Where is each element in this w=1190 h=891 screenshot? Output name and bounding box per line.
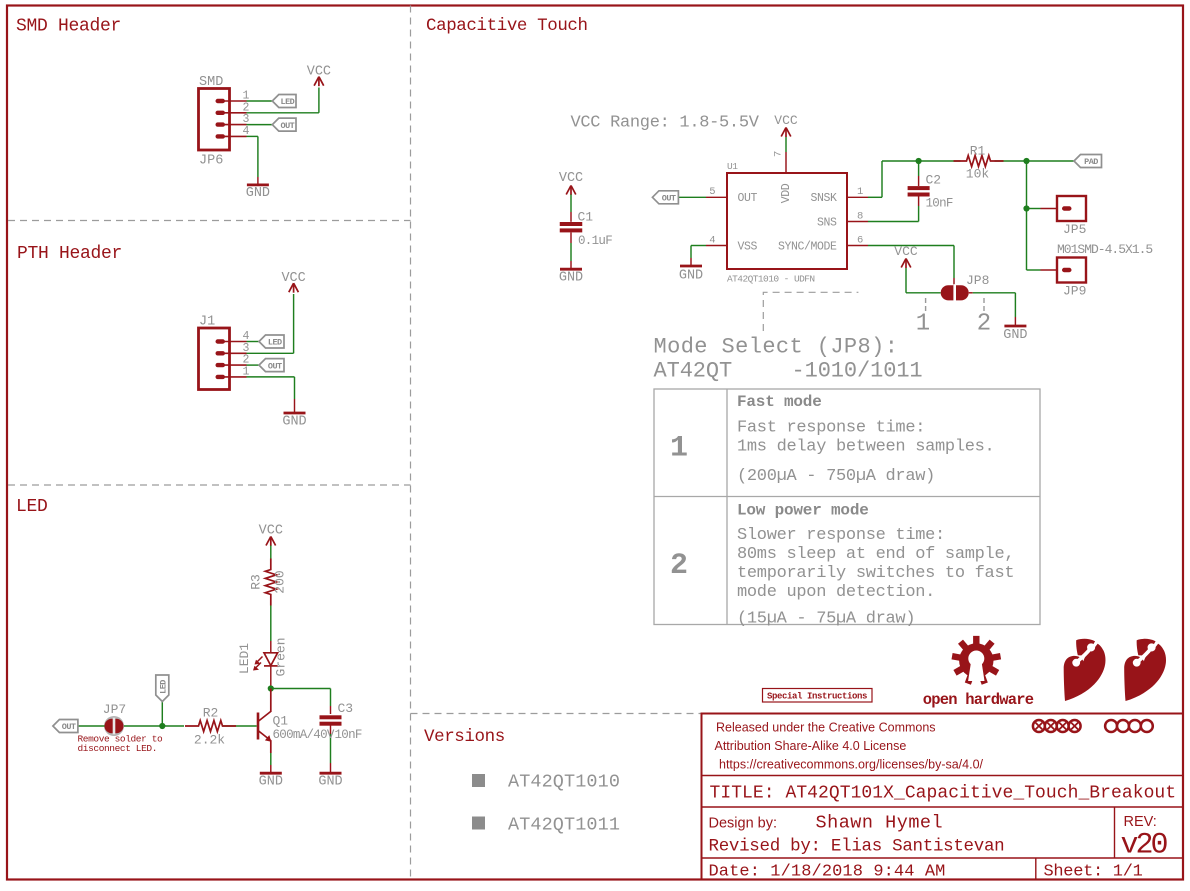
wire VCC to C1 — [570, 195, 572, 222]
connector JP6 — [199, 75, 250, 169]
flag OUT (LED section) — [53, 720, 78, 733]
svg-text:10k: 10k — [966, 167, 990, 182]
svg-text:0.1uF: 0.1uF — [578, 234, 612, 248]
svg-text:VCC: VCC — [894, 244, 918, 259]
svg-text:Fast response time:: Fast response time: — [737, 419, 925, 438]
svg-text:open hardware: open hardware — [923, 691, 1034, 709]
svg-text:1: 1 — [670, 432, 688, 466]
node LED flag junction — [159, 723, 165, 729]
pin 6 (SYNC/MODE) — [847, 234, 868, 246]
diode LED1 — [253, 653, 278, 671]
wire junction to JP7 — [123, 725, 162, 727]
annotation dashed leader — [763, 292, 858, 331]
power VCC (JP6) — [307, 65, 331, 87]
svg-text:1ms delay between samples.: 1ms delay between samples. — [737, 438, 994, 457]
pin 5 (OUT) — [706, 186, 727, 198]
svg-text:VCC Range: 1.8-5.5V: VCC Range: 1.8-5.5V — [571, 114, 760, 133]
wire C3 to GND — [330, 725, 332, 772]
svg-text:JP9: JP9 — [1063, 284, 1086, 299]
wire pin4 to GND — [247, 136, 258, 184]
svg-text:https://creativecommons.org/li: https://creativecommons.org/licenses/by-… — [719, 758, 984, 772]
svg-text:AT42QT1011: AT42QT1011 — [508, 815, 620, 836]
svg-text:8: 8 — [857, 210, 863, 222]
section divider PTH/LED dashed — [8, 484, 411, 486]
wire SNS to C2 — [868, 196, 919, 222]
svg-text:C3: C3 — [338, 701, 354, 716]
wire SNSK net — [868, 161, 1074, 197]
svg-text:C2: C2 — [926, 173, 942, 188]
svg-text:VSS: VSS — [738, 241, 758, 254]
svg-text:TITLE: AT42QT101X_Capacitive_T: TITLE: AT42QT101X_Capacitive_Touch_Break… — [710, 784, 1177, 804]
wire base to R2 — [223, 725, 257, 727]
icons CC crossed circles — [1033, 720, 1081, 732]
svg-text:OUT: OUT — [62, 722, 76, 732]
transistor Q1 — [257, 689, 272, 754]
svg-text:-1010/1011: -1010/1011 — [792, 359, 923, 384]
svg-text:Mode Select (JP8):: Mode Select (JP8): — [654, 335, 899, 360]
pin 7 (VDD) — [773, 151, 787, 173]
flag LED (J1 pin4) — [259, 335, 284, 348]
svg-text:VDD: VDD — [780, 183, 793, 203]
node LED/C3/Q1 junction — [268, 685, 274, 691]
svg-text:2: 2 — [977, 311, 991, 338]
icons CC open circles — [1105, 720, 1153, 732]
wire pin4 to GND — [691, 246, 706, 266]
wire VCC to JP8 pad1 — [906, 268, 941, 293]
wire pin3 to OUT flag — [247, 124, 273, 126]
jumper JP7 — [104, 716, 124, 736]
pad JP9 — [1057, 258, 1086, 283]
svg-text:Q1: Q1 — [273, 714, 289, 729]
svg-text:SNS: SNS — [817, 217, 837, 230]
ground GND (JP6) — [246, 185, 270, 201]
svg-text:Date: 1/18/2018 9:44 AM: Date: 1/18/2018 9:44 AM — [709, 863, 946, 882]
svg-text:AT42QT1010 - UDFN: AT42QT1010 - UDFN — [727, 274, 815, 285]
section divider SMD/PTH dashed — [8, 220, 411, 222]
wire junction to C2 — [918, 161, 920, 186]
svg-text:LED1: LED1 — [237, 643, 252, 674]
svg-text:200: 200 — [273, 570, 288, 593]
svg-text:80ms sleep at end of sample,: 80ms sleep at end of sample, — [737, 545, 1014, 564]
svg-text:Revised by: Elias Santistevan: Revised by: Elias Santistevan — [709, 837, 1005, 857]
svg-text:Capacitive Touch: Capacitive Touch — [426, 16, 588, 36]
pad marker 1 dashed — [925, 298, 927, 313]
svg-text:AT42QT: AT42QT — [654, 359, 733, 384]
ground GND (JP8) — [1003, 326, 1027, 343]
ic U1 body — [727, 173, 847, 269]
svg-text:VCC: VCC — [559, 171, 583, 186]
resistor R2 — [185, 721, 236, 732]
svg-text:JP7: JP7 — [103, 702, 126, 717]
svg-text:Green: Green — [274, 637, 289, 676]
svg-text:GND: GND — [246, 186, 270, 201]
mode table frame — [654, 389, 1040, 625]
capacitor C2 — [908, 186, 930, 196]
svg-text:10nF: 10nF — [926, 197, 953, 211]
svg-text:Low power mode: Low power mode — [737, 502, 869, 520]
power VCC (J1) — [281, 271, 305, 293]
power VCC (JP8) — [894, 244, 918, 268]
pad JP5 — [1057, 196, 1086, 221]
flag OUT (U1) — [652, 191, 678, 204]
svg-text:2.2k: 2.2k — [194, 733, 225, 748]
svg-text:(200µA - 750µA draw): (200µA - 750µA draw) — [737, 467, 935, 486]
svg-text:GND: GND — [282, 415, 306, 430]
svg-text:U1: U1 — [727, 161, 738, 172]
wire JP7 to OUT flag — [78, 725, 105, 727]
svg-text:PTH Header: PTH Header — [17, 244, 122, 264]
svg-text:5: 5 — [709, 186, 715, 198]
wire pin4 to LED flag — [247, 341, 260, 343]
resistor R1 — [954, 156, 1004, 167]
node SNSK/C2 junction — [916, 158, 922, 164]
svg-text:GND: GND — [318, 775, 342, 790]
svg-text:6: 6 — [857, 234, 863, 246]
svg-text:GND: GND — [559, 271, 583, 286]
svg-text:PAD: PAD — [1084, 157, 1098, 167]
pad marker 2 dashed — [983, 298, 985, 313]
svg-text:LED: LED — [16, 497, 48, 517]
wire JP8 pad2 to GND — [969, 293, 1016, 325]
svg-text:disconnect LED.: disconnect LED. — [78, 743, 158, 754]
wire VCC to pin7 — [785, 137, 787, 152]
flag PAD — [1074, 155, 1102, 168]
svg-text:(15µA - 75µA draw): (15µA - 75µA draw) — [737, 610, 915, 629]
svg-text:Fast mode: Fast mode — [737, 393, 822, 411]
svg-text:OUT: OUT — [662, 194, 676, 204]
svg-text:LED: LED — [280, 97, 294, 107]
svg-text:JP6: JP6 — [199, 154, 223, 169]
note remove solder — [78, 734, 164, 755]
svg-text:Sheet: 1/1: Sheet: 1/1 — [1044, 863, 1143, 882]
svg-text:OUT: OUT — [280, 121, 294, 131]
svg-text:GND: GND — [259, 775, 283, 790]
jumper JP8 — [941, 284, 969, 301]
section divider vertical dashed — [410, 6, 412, 880]
svg-text:VCC: VCC — [259, 524, 283, 539]
svg-text:SNSK: SNSK — [810, 192, 837, 205]
svg-text:R1: R1 — [970, 144, 986, 159]
ground GND (U1 VSS) — [679, 266, 703, 284]
ground GND (Q1) — [259, 773, 283, 789]
wire junction to LED flag — [161, 702, 163, 727]
power VCC (LED drive) — [259, 524, 283, 547]
svg-text:AT42QT1010: AT42QT1010 — [508, 772, 620, 793]
wire pin1 to GND — [247, 377, 295, 412]
ground GND (C1) — [559, 269, 583, 285]
svg-text:OUT: OUT — [268, 361, 282, 371]
flag OUT (J1 pin2) — [259, 359, 284, 372]
svg-text:10nF: 10nF — [335, 728, 362, 742]
svg-text:600mA/40V: 600mA/40V — [273, 728, 335, 742]
wire OUT flag to pin5 — [679, 196, 707, 198]
version bullet 2 — [472, 817, 485, 830]
callout Special Instructions — [763, 689, 873, 703]
flag LED (vertical) — [156, 675, 169, 702]
svg-text:R2: R2 — [203, 706, 219, 721]
svg-text:Versions: Versions — [424, 727, 505, 747]
pin 4 (VSS) — [706, 234, 727, 246]
wire LED1 to collector node — [270, 666, 272, 689]
logo flame 2 — [1124, 639, 1166, 701]
wire to JP9 — [1027, 269, 1058, 271]
wire pin2 to VCC — [247, 88, 319, 113]
version bullet 1 — [472, 774, 485, 787]
svg-text:SMD: SMD — [199, 75, 223, 90]
wire pin2 to OUT flag — [247, 364, 260, 366]
svg-text:VCC: VCC — [774, 113, 798, 128]
title block frame — [702, 714, 1184, 880]
svg-text:2: 2 — [670, 549, 688, 583]
svg-text:1: 1 — [916, 311, 930, 338]
svg-text:J1: J1 — [199, 315, 215, 330]
svg-text:mode upon detection.: mode upon detection. — [737, 583, 935, 602]
svg-text:OUT: OUT — [738, 192, 758, 205]
wire Q1 emitter to GND — [270, 753, 272, 772]
wire R2 to junction — [162, 725, 184, 727]
logo flame 1 — [1064, 639, 1106, 701]
svg-text:Slower response time:: Slower response time: — [737, 526, 945, 545]
flag OUT (JP6 pin3) — [272, 118, 296, 131]
svg-text:GND: GND — [679, 269, 703, 284]
node SNSK/JP5 junction — [1023, 158, 1029, 164]
svg-text:R3: R3 — [249, 574, 264, 590]
svg-text:M01SMD-4.5X1.5: M01SMD-4.5X1.5 — [1057, 242, 1152, 257]
wire pin3 to VCC — [247, 294, 294, 353]
flag LED (JP6 pin1) — [272, 95, 296, 108]
section divider Versions dashed — [411, 713, 702, 715]
ground GND (C3) — [318, 773, 342, 789]
svg-text:Special Instructions: Special Instructions — [767, 692, 867, 702]
svg-text:SMD Header: SMD Header — [16, 17, 121, 37]
resistor R3 — [265, 559, 276, 606]
power VCC (C1) — [559, 171, 583, 195]
connector J1 — [199, 315, 250, 390]
svg-text:JP8: JP8 — [966, 273, 989, 288]
wire riser JP5/JP9 — [1026, 161, 1028, 270]
svg-text:Released under the Creative Co: Released under the Creative Commons — [716, 721, 936, 735]
power VCC (U1 VDD) — [774, 113, 798, 137]
wire node to C3 — [271, 689, 331, 715]
capacitor C1 — [560, 222, 583, 232]
svg-text:JP5: JP5 — [1063, 222, 1086, 237]
wire C1 to GND — [570, 233, 572, 269]
svg-text:4: 4 — [709, 234, 715, 246]
capacitor C3 — [320, 715, 342, 725]
svg-text:Shawn Hymel: Shawn Hymel — [816, 813, 944, 834]
svg-text:LED: LED — [268, 338, 282, 348]
svg-text:Design by:: Design by: — [709, 816, 778, 832]
node JP5 junction — [1023, 205, 1029, 211]
logo open hardware gear — [952, 636, 1002, 685]
svg-text:GND: GND — [1003, 328, 1027, 343]
wire pin1 to LED flag — [247, 100, 273, 102]
pin 8 (SNS) — [847, 210, 868, 222]
svg-text:7: 7 — [773, 151, 785, 157]
svg-text:v20: v20 — [1121, 829, 1168, 863]
svg-text:C1: C1 — [578, 210, 594, 225]
wire pin6 to JP8 — [868, 246, 954, 287]
ground GND (J1) — [282, 413, 306, 430]
svg-text:LED: LED — [159, 680, 169, 694]
svg-text:1: 1 — [857, 186, 863, 198]
pin 1 (SNSK) — [847, 186, 868, 198]
svg-text:temporarily switches to fast: temporarily switches to fast — [737, 564, 1014, 583]
wire VCC to R3 — [270, 546, 272, 561]
wire R3 to LED1 — [270, 606, 272, 653]
svg-text:Attribution Share-Alike 4.0 Li: Attribution Share-Alike 4.0 License — [715, 739, 907, 753]
svg-text:SYNC/MODE: SYNC/MODE — [778, 241, 837, 254]
wire to JP5 — [1027, 208, 1058, 210]
